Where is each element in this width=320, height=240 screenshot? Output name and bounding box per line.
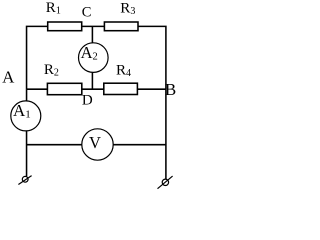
resistor R3	[104, 22, 138, 31]
svg-text:A: A	[2, 68, 15, 87]
svg-text:D: D	[82, 93, 93, 109]
wire ammeter A1 to left terminal	[26, 131, 28, 176]
wire B down to right terminal	[165, 89, 167, 179]
right terminal	[158, 176, 173, 189]
ammeter A1	[11, 101, 41, 131]
wire A to R2	[27, 88, 48, 90]
resistor R1	[48, 22, 82, 31]
svg-text:C: C	[82, 5, 92, 21]
voltmeter V	[82, 129, 113, 160]
wire R2 to R4 through node D	[82, 88, 104, 90]
wire A down to ammeter A1	[26, 89, 28, 101]
wire voltmeter V to right branch	[113, 144, 166, 146]
wire top-right corner (R3 to B)	[138, 26, 166, 89]
resistor R2	[47, 83, 81, 94]
wire left branch to voltmeter V	[27, 144, 82, 146]
svg-text:V: V	[89, 133, 101, 152]
wire C segment (R1 to R3 through node C)	[82, 25, 105, 27]
svg-text:B: B	[165, 80, 176, 99]
wire ammeter A2 to node D	[91, 72, 93, 89]
wire node C to ammeter A2	[91, 26, 93, 43]
resistor R4	[104, 83, 138, 94]
wire top-left corner (A to R1)	[27, 26, 48, 89]
left terminal	[18, 176, 31, 185]
wire R4 to B	[137, 88, 166, 90]
ammeter A2	[79, 43, 109, 73]
